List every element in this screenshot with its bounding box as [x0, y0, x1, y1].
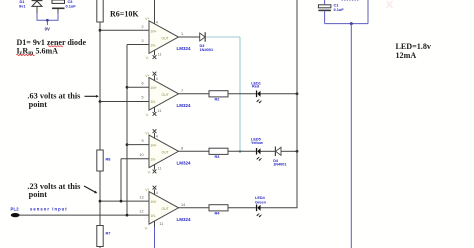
svg-text:LM324: LM324: [177, 46, 192, 51]
resistor R4: [209, 205, 228, 216]
svg-text:14: 14: [181, 203, 185, 207]
svg-text:1N+: 1N+: [151, 200, 157, 204]
wire: C1 bottom lead: [324, 11, 326, 24]
svg-text:13: 13: [139, 196, 143, 200]
svg-text:1: 1: [181, 32, 183, 36]
svg-text:R8: R8: [106, 157, 112, 162]
svg-text:9: 9: [141, 139, 143, 143]
power V+ pin U1B: [145, 72, 158, 82]
svg-text:11: 11: [158, 52, 162, 56]
svg-text:1N+: 1N+: [151, 144, 157, 148]
svg-text:0.1uF: 0.1uF: [334, 7, 345, 12]
svg-text:OUT: OUT: [162, 36, 169, 40]
svg-text:R4: R4: [215, 210, 221, 215]
wire: U1B output to R2: [179, 93, 210, 95]
svg-text:0V: 0V: [45, 27, 50, 32]
wire: D1 anode down: [36, 7, 38, 13]
svg-text:1N4001: 1N4001: [200, 47, 214, 52]
svg-text:OUT: OUT: [162, 151, 169, 155]
svg-text:V-: V-: [146, 113, 149, 117]
svg-text:4: 4: [156, 77, 158, 81]
node: divider to U1A pin2: [99, 29, 102, 32]
wire: R4 to LED4: [228, 207, 256, 209]
op-amp U1C LM324: [139, 135, 191, 168]
svg-text:10: 10: [139, 153, 143, 157]
op-amp U1A LM324: [141, 21, 191, 54]
wire: R2 to LED1: [228, 93, 256, 95]
wire: R8 to R7: [99, 171, 101, 226]
node: supply junction: [350, 22, 353, 25]
node 0V stub: [46, 20, 48, 25]
wire: D4 to anode bus: [281, 150, 297, 152]
svg-text:V+: V+: [145, 188, 149, 192]
svg-text:PL2: PL2: [11, 207, 20, 212]
node: .23V divider node: [99, 200, 102, 203]
node: cyan junction at row 3: [239, 150, 242, 153]
svg-text:LM324: LM324: [177, 103, 192, 108]
svg-text:V+: V+: [145, 131, 149, 135]
wire: cyan net D3 to R3/LED5 junction: [206, 36, 240, 38]
svg-text:11: 11: [158, 109, 162, 113]
node: bus to U1B pin6: [126, 86, 129, 89]
svg-text:LED=1.8v: LED=1.8v: [396, 42, 432, 51]
svg-text:1N+: 1N+: [151, 86, 157, 90]
svg-text:0.1uF: 0.1uF: [66, 4, 77, 9]
wire: C1 box right side: [367, 0, 369, 24]
wire: C3 bottom down: [57, 9, 59, 13]
wire: U1C output to R3: [179, 150, 210, 152]
LED5 Yellow: [251, 138, 263, 161]
red squiggle under IzRm: [17, 54, 35, 55]
svg-text:R3: R3: [215, 154, 221, 159]
power V- pin U1B: [146, 107, 162, 117]
svg-text:V+: V+: [145, 74, 149, 78]
capacitor C3: [52, 0, 76, 9]
svg-text:V+: V+: [145, 17, 149, 21]
resistor R8: [97, 150, 112, 171]
wire: C1 box bottom: [325, 23, 368, 25]
net label dots (clipped): [342, 0, 359, 1]
connector PL2 sensor input: [11, 207, 68, 218]
svg-text:3: 3: [141, 39, 143, 43]
svg-text:R6=10K: R6=10K: [110, 10, 139, 19]
wire: U1D output to R4: [179, 207, 210, 209]
svg-text:sensor input: sensor input: [30, 207, 68, 212]
node: LED1 on anode bus: [296, 92, 299, 95]
red squiggle under zener: [48, 46, 63, 47]
svg-text:OUT: OUT: [162, 207, 169, 211]
wire: U1A V+ to top edge: [154, 0, 156, 24]
wire: LED anode bus vertical: [296, 0, 298, 208]
node: divider .63V to U1B pin5: [99, 100, 102, 103]
svg-text:1N4001: 1N4001: [273, 163, 286, 167]
power V- pin U1A: [146, 50, 162, 60]
capacitor C1: [318, 2, 344, 11]
resistor R2: [209, 91, 228, 102]
svg-text:4: 4: [156, 135, 158, 139]
svg-text:9v1: 9v1: [19, 3, 26, 8]
wire: bus to U1A pin3: [127, 44, 149, 46]
svg-text:1N-: 1N-: [151, 158, 156, 162]
svg-text:12: 12: [139, 210, 143, 214]
power V+ pin U1D: [145, 186, 158, 196]
svg-text:1N-: 1N-: [151, 43, 156, 47]
faint power symbol X: [387, 1, 393, 8]
svg-text:V-: V-: [148, 171, 151, 175]
svg-text:1N-: 1N-: [151, 100, 156, 104]
svg-text:LM324: LM324: [177, 160, 192, 165]
node: bus to U1C pin9: [126, 143, 129, 146]
svg-text:R7: R7: [106, 231, 111, 236]
arrow to .63V node: [85, 95, 97, 97]
wire: sensor input line: [20, 214, 150, 216]
wire: R3 to LED5: [228, 150, 256, 152]
svg-text:4: 4: [156, 20, 158, 24]
diode D3 1N4001: [200, 32, 214, 52]
wire: branch to U1C pin10: [120, 159, 122, 201]
arrow to .23V node: [84, 186, 95, 192]
svg-text:Red: Red: [252, 85, 260, 89]
svg-text:5.6mA: 5.6mA: [36, 46, 59, 55]
wire: R7 bottom stub: [99, 247, 101, 248]
svg-text:point: point: [29, 190, 48, 199]
svg-text:11: 11: [158, 167, 162, 171]
wire: LED1 to anode bus: [261, 93, 298, 95]
LED4 Green: [255, 196, 267, 217]
wire: divider column: [99, 22, 101, 150]
svg-text:V-: V-: [145, 227, 148, 231]
svg-text:1N+: 1N+: [151, 29, 157, 33]
wire: supply line down right side: [350, 24, 352, 248]
op-amp U1B LM324: [141, 78, 191, 111]
wire: LED4 to anode bus corner: [261, 207, 298, 209]
svg-text:11: 11: [160, 222, 164, 226]
svg-text:R2: R2: [215, 96, 221, 101]
svg-text:6: 6: [141, 82, 143, 86]
diode D4 1N4001: [273, 147, 286, 167]
wire: D1/C3 junction bar: [37, 19, 59, 21]
svg-text:Green: Green: [255, 200, 267, 204]
node: D4 on anode bus: [296, 150, 299, 153]
svg-text:5: 5: [141, 96, 143, 100]
svg-text:LM324: LM324: [177, 217, 192, 222]
zener diode D1: [19, 0, 42, 8]
svg-text:1N-: 1N-: [151, 214, 156, 218]
wire: LED5 to D4: [261, 150, 276, 152]
svg-text:4: 4: [156, 191, 158, 195]
svg-text:2: 2: [141, 25, 143, 29]
svg-text:8: 8: [181, 146, 183, 150]
wire: U1A output: [179, 36, 200, 38]
wire: C1 top lead: [324, 0, 326, 5]
resistor R7: [97, 226, 111, 247]
svg-text:point: point: [29, 100, 48, 109]
op-amp U1D LM324: [139, 192, 191, 225]
svg-text:V-: V-: [146, 56, 149, 60]
svg-text:7: 7: [181, 89, 183, 93]
power V- pin U1C: [148, 164, 162, 174]
LED1 Red: [251, 82, 261, 104]
power V- pin U1D blue wire to bottom: [145, 221, 164, 248]
resistor R6: [97, 0, 103, 22]
resistor R3: [209, 148, 228, 159]
svg-text:OUT: OUT: [162, 93, 169, 97]
power V+ pin U1C: [145, 129, 158, 139]
wire: signal bus vertical: [126, 45, 128, 216]
node: bus to sensor line: [126, 214, 129, 217]
svg-text:Yellow: Yellow: [251, 141, 263, 145]
svg-text:12mA: 12mA: [396, 51, 417, 60]
